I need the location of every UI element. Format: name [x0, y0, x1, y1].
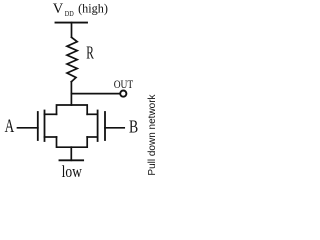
- source rail: [57, 137, 88, 147]
- resistor R1: [67, 37, 77, 82]
- drain rail: [57, 105, 88, 114]
- transistor Q2 drain lead: [87, 113, 97, 115]
- wire gate B: [105, 127, 124, 129]
- transistor Q2 source lead: [87, 136, 97, 138]
- transistor Q1 gate bar: [37, 112, 39, 140]
- svg-text:A: A: [5, 116, 15, 137]
- output terminal circle: [120, 91, 126, 97]
- transistor Q1 channel bar: [44, 111, 46, 142]
- svg-text:low: low: [62, 162, 83, 181]
- svg-text:(high): (high): [78, 1, 108, 16]
- svg-text:R: R: [86, 43, 94, 63]
- transistor Q1 drain lead: [45, 113, 57, 115]
- svg-text:V: V: [53, 1, 64, 17]
- wire VDD bar to resistor: [71, 23, 73, 37]
- wire OUT: [72, 93, 121, 95]
- transistor Q2 gate bar: [104, 112, 106, 140]
- transistor Q1 source lead: [45, 136, 57, 138]
- VDD rail bar: [56, 22, 88, 24]
- svg-text:Pull down network: Pull down network: [147, 93, 158, 175]
- wire gate A: [18, 127, 38, 129]
- svg-text:DD: DD: [65, 9, 74, 18]
- wire resistor to drain rail: [70, 82, 72, 105]
- svg-text:B: B: [129, 117, 138, 137]
- svg-text:OUT: OUT: [114, 79, 134, 91]
- ground bar: [60, 159, 84, 161]
- wire source rail to ground: [70, 147, 72, 160]
- transistor Q2 channel bar: [97, 111, 99, 142]
